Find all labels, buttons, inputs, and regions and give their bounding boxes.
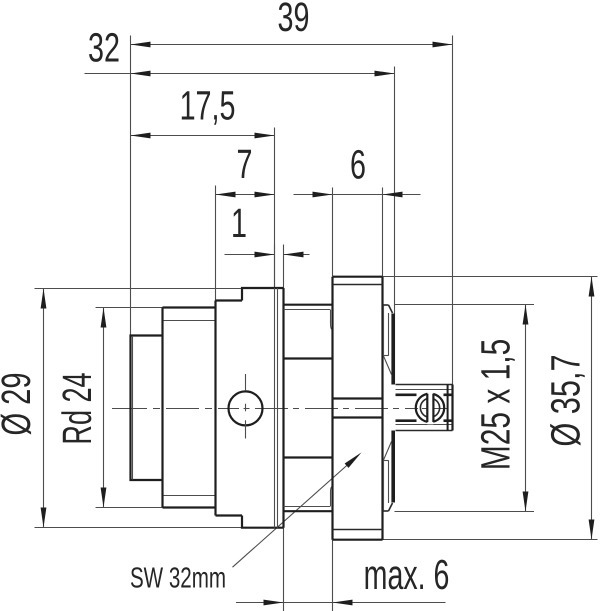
label SW 32mm with leader xyxy=(130,450,363,594)
wire dim Rd24 xyxy=(54,308,163,508)
serrated lock washer top xyxy=(383,305,394,385)
front ring section xyxy=(216,301,243,516)
hex flange SW32 xyxy=(333,277,383,540)
svg-text:17,5: 17,5 xyxy=(180,83,236,129)
wire dim max. 6 xyxy=(236,528,449,611)
wire dim M25x1,5 xyxy=(395,305,535,512)
wire dim 32 xyxy=(85,25,395,385)
svg-text:39: 39 xyxy=(278,0,310,40)
svg-text:SW 32mm: SW 32mm xyxy=(130,563,226,595)
wire dim 17,5 xyxy=(131,83,275,289)
svg-text:Rd 24: Rd 24 xyxy=(54,372,100,444)
ground screw head xyxy=(416,391,444,424)
panel lip and ridge xyxy=(242,288,284,528)
wire dim 39 xyxy=(131,0,453,385)
wire dim 1 xyxy=(225,200,310,288)
svg-text:1: 1 xyxy=(231,200,247,246)
centerline axis xyxy=(112,408,447,410)
threaded neck M25 xyxy=(284,305,333,512)
wire dim 7 xyxy=(216,141,275,301)
rear screw housing tube xyxy=(396,385,453,431)
svg-text:6: 6 xyxy=(350,142,366,188)
svg-text:7: 7 xyxy=(237,141,253,187)
svg-text:max. 6: max. 6 xyxy=(364,551,450,598)
front cylinder section xyxy=(131,336,163,481)
bayonet ring section xyxy=(163,308,216,508)
wire dim 6 flange xyxy=(294,142,421,277)
svg-text:M25 x 1,5: M25 x 1,5 xyxy=(473,339,519,470)
svg-text:Ø 35,7: Ø 35,7 xyxy=(543,354,589,446)
wire dim D35,7 xyxy=(383,277,598,540)
svg-text:32: 32 xyxy=(88,25,120,71)
serrated lock washer bottom xyxy=(383,431,394,512)
contact hole circle xyxy=(229,374,263,439)
wire dim D29 xyxy=(0,289,242,528)
svg-text:Ø 29: Ø 29 xyxy=(0,372,39,435)
